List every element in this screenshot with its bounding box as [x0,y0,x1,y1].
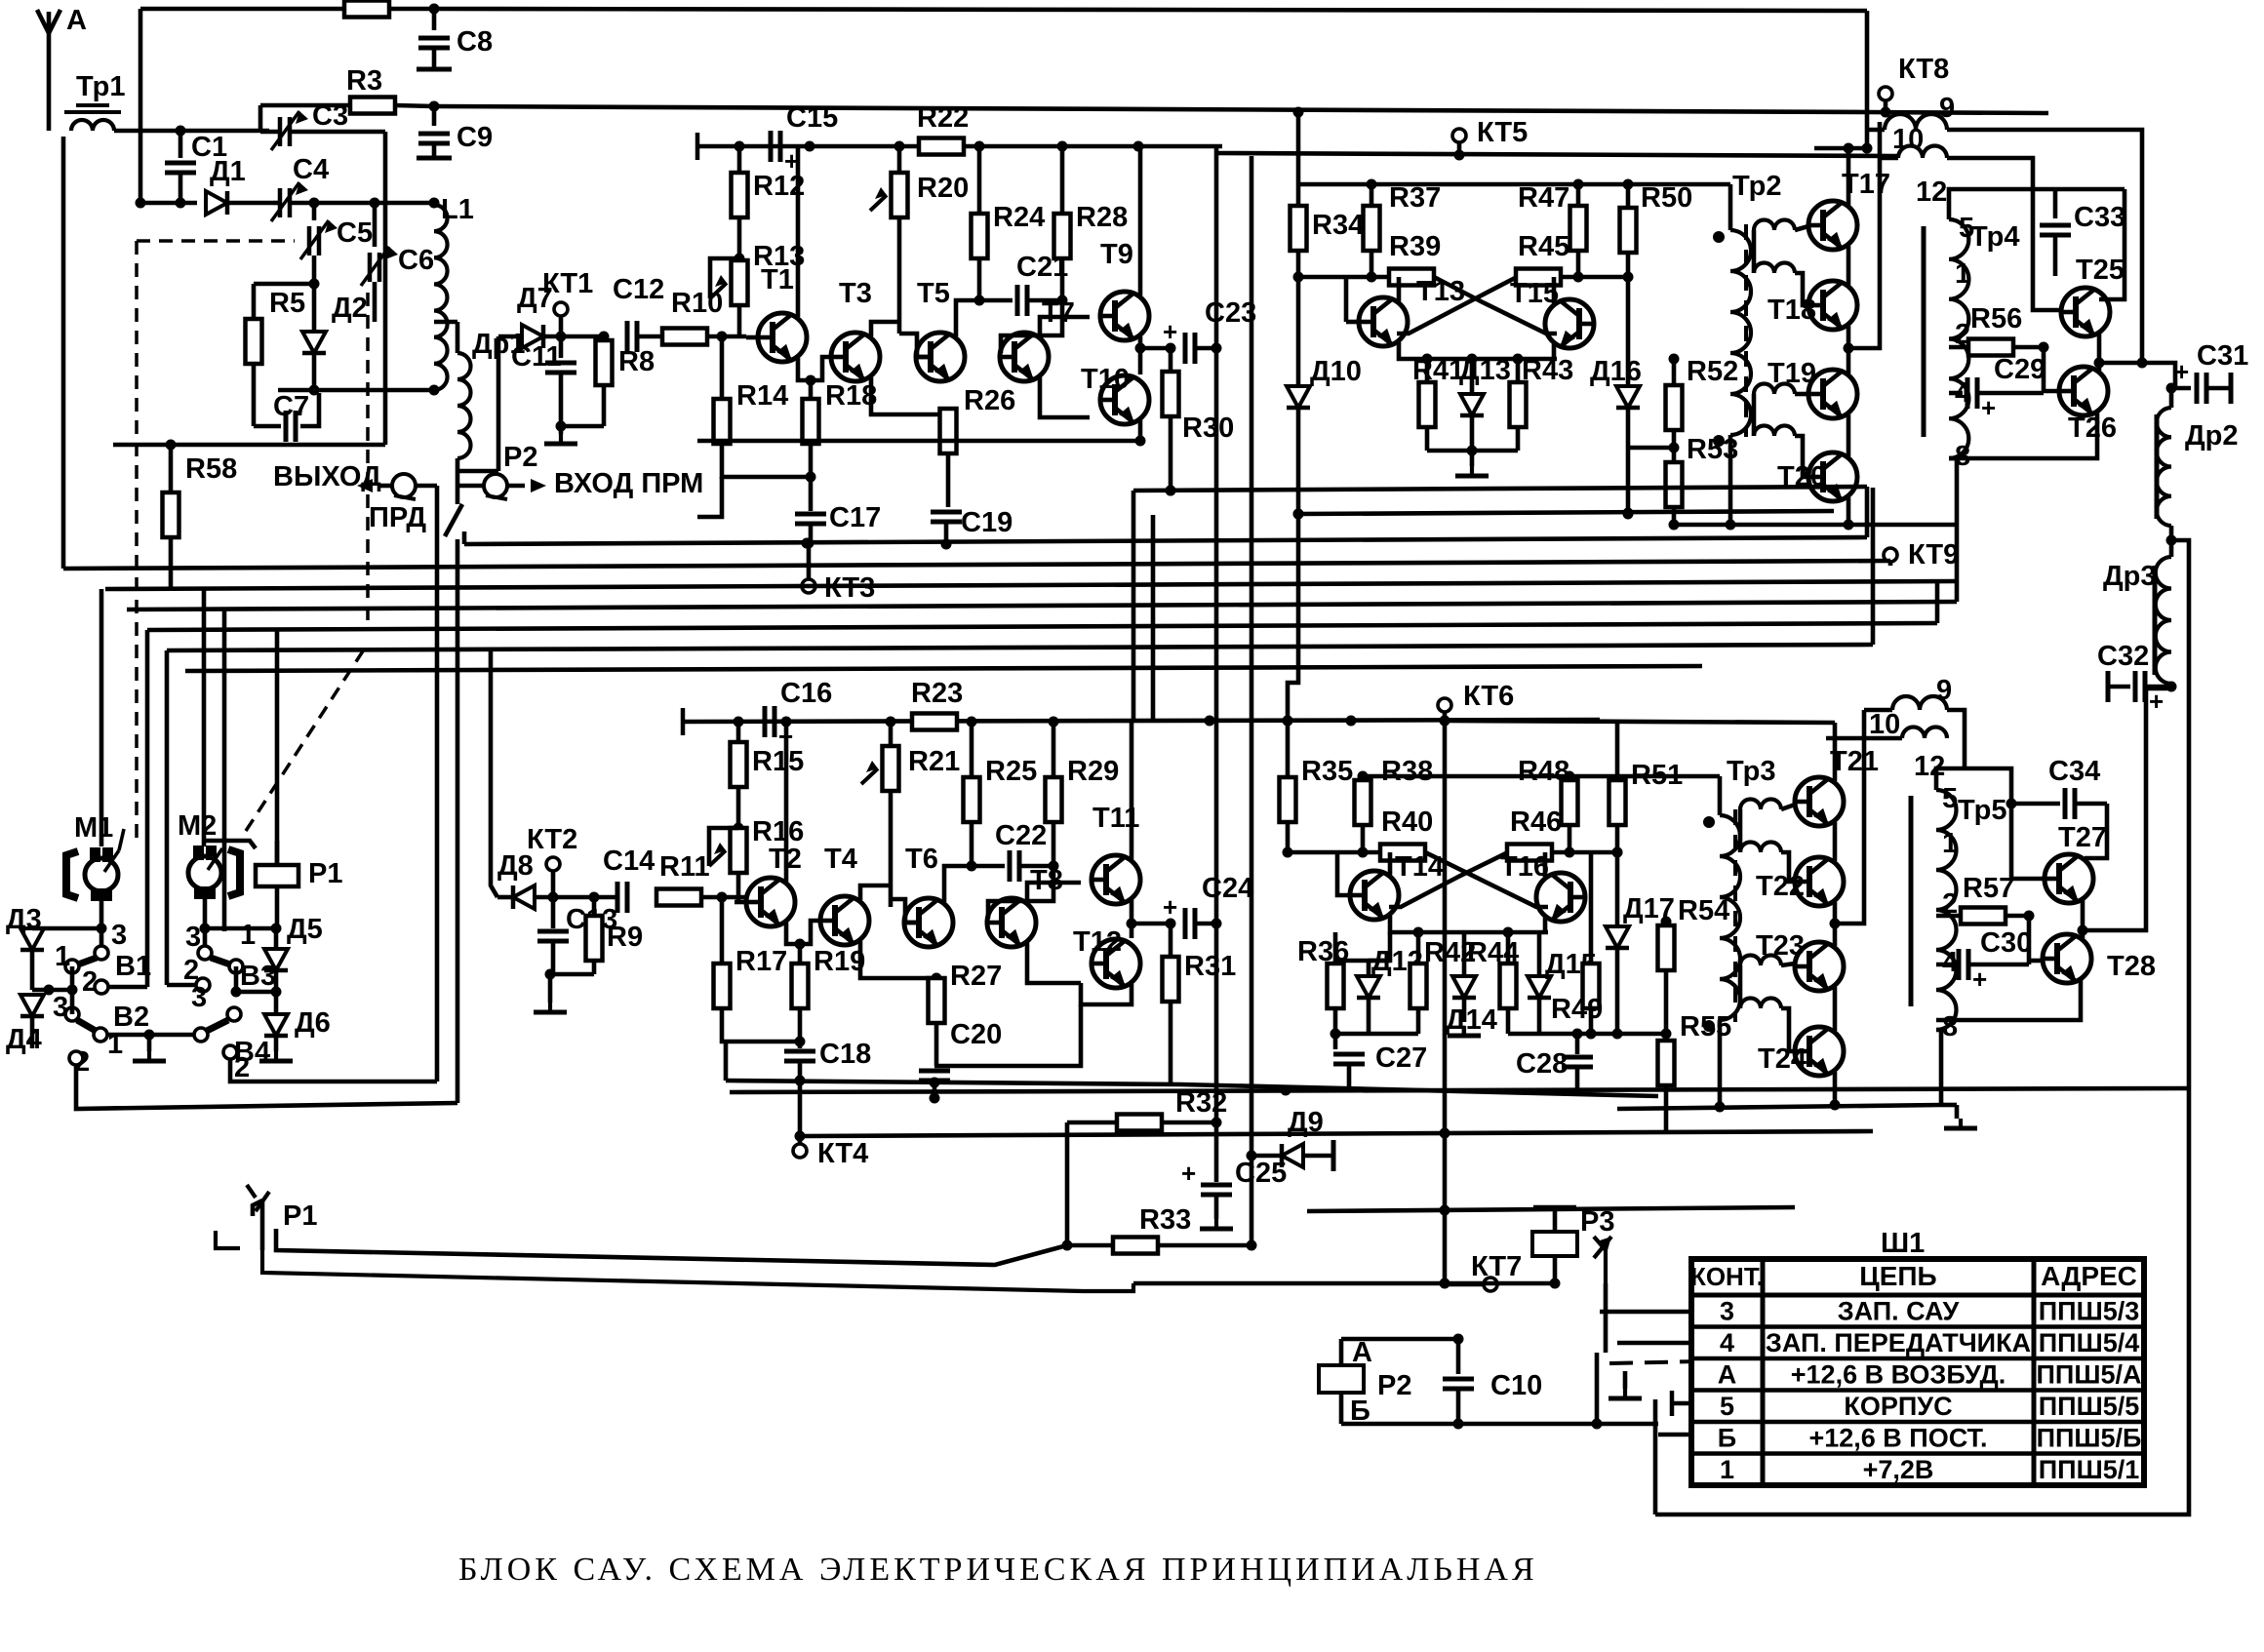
svg-text:В1: В1 [115,951,151,982]
transistor T16 [1500,851,1586,922]
riser [462,531,467,544]
svg-text:C9: C9 [457,122,493,153]
wire [139,9,143,203]
diode D15 [1528,932,1597,1034]
svg-text:Т16: Т16 [1500,851,1549,883]
svg-text:R22: R22 [917,102,969,134]
svg-text:Ш1: Ш1 [1881,1228,1925,1259]
svg-text:ППШ5/1: ППШ5/1 [2039,1455,2139,1484]
wire T23-T24 [1833,987,1838,1031]
resistor R25 [964,722,1038,872]
transistor T26 [2058,367,2117,444]
terminal KT4 [793,1136,868,1169]
wire [32,926,101,931]
svg-text:Р2: Р2 [503,442,537,473]
riser [1132,491,1136,723]
wire T3 collector [871,322,899,336]
svg-text:В2: В2 [113,1002,149,1033]
connector table Sh1 [1691,1259,2144,1485]
ground [274,1051,278,1061]
svg-text:A: A [66,5,87,36]
Tr4 coil 10 [1880,124,1947,158]
ffl ground rail [1427,446,1518,456]
svg-text:C4: C4 [293,154,329,185]
svg-text:+: + [2149,687,2164,716]
svg-text:Т14: Т14 [1395,851,1444,883]
svg-text:C15: C15 [786,102,838,134]
wire T2 collector [784,722,789,882]
wire [114,129,269,134]
capacitor C13 [537,897,617,974]
relay P3 [1532,1206,1614,1289]
svg-text:R5: R5 [269,288,305,319]
svg-text:R30: R30 [1182,413,1234,444]
resistor R27 [929,961,1003,1066]
ground [1944,1105,1977,1128]
node [806,375,816,386]
wire T19-T20 [1847,414,1851,456]
capacitor C30 [1936,927,2032,994]
terminal KT3 [802,538,875,605]
svg-text:+: + [1163,317,1177,346]
resistor R22 [894,102,1144,155]
table ground row5 [1672,1391,1691,1416]
svg-text:3: 3 [111,920,127,951]
transistor T28 [2042,934,2156,983]
wire [113,443,385,448]
svg-text:Т7: Т7 [1042,297,1075,329]
capacitor C7 [254,391,319,442]
svg-text:Т19: Т19 [1768,358,1816,389]
emitter rail [1399,342,1557,365]
transistor T8 [986,865,1063,947]
svg-text:R21: R21 [908,746,960,777]
Tr4 core [1922,226,1926,437]
svg-text:Т26: Т26 [2068,413,2117,444]
transistor T9 [1099,239,1149,340]
svg-text:R39: R39 [1389,231,1441,262]
svg-text:C29: C29 [1994,354,2046,385]
Tr3 core [1733,809,1737,1022]
resistor R18 [803,380,878,483]
resistor R41 [1412,355,1464,451]
svg-text:C8: C8 [457,26,493,58]
diode D16 [1590,277,1642,520]
diode D3 [6,904,44,990]
svg-text:R47: R47 [1518,182,1569,214]
svg-text:R23: R23 [911,678,963,709]
svg-text:Т1: Т1 [761,264,794,295]
svg-text:C25: C25 [1235,1158,1287,1189]
riser left c [165,650,170,985]
transistor T11 [1091,803,1140,904]
svg-text:А: А [1352,1337,1372,1368]
wire T27 base [1936,768,2044,879]
transistor T22 [1756,857,1844,906]
node [429,4,440,15]
resistor R54 [1658,895,1730,1040]
wire [1445,721,1835,723]
svg-text:R51: R51 [1631,760,1683,791]
svg-text:Т12: Т12 [1073,926,1122,958]
diode D6 [264,992,331,1051]
capacitor C9 [417,106,493,158]
dashed mech link [135,241,139,846]
riser [1440,716,1450,1284]
svg-text:1: 1 [1720,1455,1734,1484]
wire T4 collector [860,885,891,900]
svg-text:Р3: Р3 [1580,1206,1614,1238]
wire [258,105,263,132]
svg-text:1: 1 [1942,828,1958,859]
wire [796,146,801,317]
wire [230,511,437,1082]
cross coupling [1389,852,1548,907]
long wire [262,1250,1133,1291]
resistor R55 [1658,1011,1732,1131]
wire T26 emitter [1949,412,2097,458]
svg-text:Д2: Д2 [332,293,368,324]
svg-text:R3: R3 [346,65,382,97]
riser left f [275,630,280,865]
wire [1835,710,1864,924]
upper ground rail [697,439,1140,444]
svg-text:А: А [1718,1359,1737,1389]
wire [2085,804,2107,858]
svg-text:Т6: Т6 [905,844,938,875]
rail [1307,1205,1795,1216]
svg-text:R26: R26 [964,385,1015,416]
wire T13 base [1346,320,1359,325]
ground [544,426,577,444]
capacitor C14 [603,846,655,913]
svg-text:КТ6: КТ6 [1463,681,1514,712]
svg-text:+7,2В: +7,2В [1863,1455,1934,1484]
capacitor C1 [165,126,227,209]
dashed mech link [246,644,368,831]
wire [61,137,66,569]
svg-text:R50: R50 [1641,182,1692,214]
svg-text:5: 5 [1942,783,1958,814]
Tr5 coil 10 [1826,709,1947,740]
relay contact P1 [216,1185,317,1250]
svg-text:КОНТ.: КОНТ. [1690,1262,1764,1291]
svg-text:3: 3 [191,982,207,1013]
wire [383,132,388,203]
choke Dr2 [2157,388,2239,526]
KT5 line [1215,153,1897,156]
wire [1288,850,1363,855]
wire [1335,1032,1418,1037]
resistor R30 [1163,348,1235,496]
wire [697,477,722,517]
resistor R45 [1516,231,1628,286]
svg-text:Др2: Др2 [2185,420,2239,452]
capacitor C23 [1140,297,1256,364]
Tr2 sec B [1754,384,1808,477]
wire [934,1004,1081,1066]
wire [76,539,457,1109]
resistor R29 [1046,722,1120,866]
svg-text:R20: R20 [917,173,969,204]
svg-text:Д10: Д10 [1310,356,1362,387]
dashed mech link [137,239,295,243]
svg-text:+: + [2174,357,2189,386]
wire T7 collector [1040,317,1090,336]
svg-text:C3: C3 [312,100,348,132]
svg-text:R48: R48 [1518,756,1569,787]
table stub row3 [1600,1310,1691,1315]
svg-text:Д13: Д13 [1459,355,1511,386]
transistor T7 [999,297,1075,381]
resistor R39 [1371,231,1441,286]
svg-text:+: + [1981,393,1996,422]
svg-text:C7: C7 [273,391,309,422]
wire [205,926,276,931]
resistor R48 [1518,756,1578,858]
Tr3 primary [1720,776,1740,1107]
wire T10 emitter [1138,420,1143,441]
terminal KT9 [1884,539,1959,570]
wire T21 collector [1833,723,1838,781]
resistor R58 [163,445,238,589]
Tr2 dot [1713,231,1725,243]
wire [1955,525,1960,602]
resistor R32 [1067,1087,1227,1131]
svg-text:R56: R56 [1970,303,2022,334]
resistor R5 [246,284,315,426]
svg-text:ВХОД ПРМ: ВХОД ПРМ [554,468,703,499]
capacitor C11 [511,336,576,432]
M2 bracket [228,849,240,896]
svg-text:R41: R41 [1412,355,1464,386]
svg-text:Т27: Т27 [2058,822,2107,853]
svg-text:C10: C10 [1490,1370,1542,1401]
Tr3 dot [1703,816,1715,828]
switch B4 [191,982,270,1083]
node [932,973,942,984]
svg-text:Т23: Т23 [1756,930,1805,962]
wire [1848,122,1880,348]
svg-text:C31: C31 [2197,340,2248,372]
node [1135,343,1146,354]
capacitor C3 [260,100,385,150]
wire T18-T19 [1844,326,1854,374]
svg-text:R52: R52 [1687,356,1738,387]
terminal KT1 [542,268,593,342]
svg-text:8: 8 [1942,1011,1958,1042]
svg-text:Т25: Т25 [2076,255,2125,286]
wire T7 emitter [1040,377,1090,417]
wire [231,966,282,998]
relay P2 coil [1319,1337,1411,1427]
KT4 rail [795,1128,1874,1142]
svg-text:10: 10 [1869,709,1900,740]
resistor R11 [656,851,746,906]
Tr5 core [1909,796,1914,1006]
wire [798,357,832,380]
svg-text:ППШ5/3: ППШ5/3 [2039,1296,2139,1325]
wire [32,966,78,1014]
svg-text:Д9: Д9 [1288,1107,1324,1138]
node [589,892,600,903]
C16 rail [683,708,1600,735]
wire [1949,189,2125,219]
diode D8 [497,850,617,909]
svg-text:1: 1 [240,920,256,951]
dashed mech link [366,293,370,624]
svg-text:C12: C12 [613,274,664,305]
svg-text:C32: C32 [2097,641,2149,672]
vertical riser [1250,156,1254,1245]
transistor T12 [1073,926,1140,988]
svg-text:3: 3 [185,922,201,953]
resistor R28 [1054,146,1129,300]
svg-text:C33: C33 [2074,202,2125,233]
capacitor C8 [417,9,493,69]
diode D4 [6,995,44,1055]
transistor T15 [1510,278,1595,348]
node [1062,1240,1073,1251]
svg-text:Т28: Т28 [2107,951,2156,982]
capacitor C32 [2097,641,2177,716]
riser [1288,514,1298,721]
resistor R51 [1609,721,1684,858]
wire [1628,446,1674,451]
transistor T10 [1081,364,1149,424]
motor M2 [178,810,222,928]
terminal KT7 [1445,1251,1522,1291]
svg-text:1: 1 [55,941,70,972]
svg-text:Т10: Т10 [1081,364,1130,395]
svg-text:1: 1 [1955,258,1970,290]
svg-text:В3: В3 [240,961,276,992]
wire T9 collector [1138,146,1143,295]
svg-text:Р2: Р2 [1377,1370,1411,1401]
svg-text:R35: R35 [1301,756,1353,787]
capacitor C4 [271,154,434,221]
lower ground rail [726,1076,1658,1097]
svg-text:ППШ5/А: ППШ5/А [2037,1359,2142,1389]
capacitor C24 [1132,873,1253,939]
svg-text:Т13: Т13 [1416,276,1465,307]
wire T13 collector [1397,277,1402,301]
table bottom wire [1653,1399,1658,1514]
svg-text:C16: C16 [780,678,832,709]
wire [1341,1422,1658,1427]
antenna A [37,5,87,131]
Tr5 pin8 wire [1936,1030,1941,1105]
svg-text:Тр4: Тр4 [1970,221,2019,253]
M1 bracket [66,851,78,898]
svg-text:Р1: Р1 [308,858,342,889]
capacitor C18 [784,1039,871,1082]
diode D17 [1606,847,1675,1040]
node [1453,1334,1464,1345]
wire [457,336,498,471]
node [1293,107,1304,118]
transistor T19 [1768,358,1857,418]
svg-text:Д4: Д4 [6,1024,42,1055]
transistor T25 [2060,255,2125,336]
bus S1 [1133,486,1867,496]
vertical riser [1214,146,1219,1122]
wire [1335,932,1390,961]
svg-text:C24: C24 [1202,873,1253,904]
diode D10 [1287,277,1362,520]
svg-text:ЗАП. ПЕРЕДАТЧИКА: ЗАП. ПЕРЕДАТЧИКА [1766,1328,2031,1357]
flipflop top rail [1298,182,1730,187]
wire T26 out [2099,363,2175,388]
wire [278,388,434,393]
node [2166,535,2177,546]
wire T8 emitter [1027,943,1081,983]
bus L4 [127,602,1957,610]
resistor R34 [1291,184,1365,283]
resistor R38 [1355,756,1434,858]
riser left a [99,589,104,846]
Tr2 core [1744,224,1748,437]
svg-text:R19: R19 [814,946,865,977]
R3 bus [434,106,2048,113]
wire T17 collector [1847,148,1851,205]
wire T2 emitter [786,921,820,944]
wire T11-T12 [1127,900,1137,938]
node [1453,1419,1464,1430]
Tr3 bottom rail [1617,1102,1941,1113]
resistor R10 [662,288,746,345]
ground [133,1035,166,1061]
svg-text:ЦЕПЬ: ЦЕПЬ [1859,1261,1936,1291]
wire T27-T28 [2078,899,2088,938]
wire T11 collector [1130,722,1134,859]
transistor T24 [1758,1027,1844,1076]
capacitor C22 [972,820,1059,882]
wire [1298,275,1371,280]
wire T16 collector [1543,852,1548,877]
svg-text:C6: C6 [398,245,434,276]
resistor R17 [714,897,801,1042]
transformer Tr1 [64,71,125,131]
node [795,939,806,950]
wire T27 out [2083,688,2167,930]
riser left d [202,589,207,846]
wire T13 base col [1344,277,1349,322]
node [429,101,440,112]
choke Dr1 [434,322,526,458]
capacitor C34 [2006,756,2108,819]
transistor T5 [899,278,965,381]
capacitor C20 [919,1019,1002,1104]
bus L7 [185,666,1702,671]
svg-text:R43: R43 [1522,355,1573,386]
svg-text:R29: R29 [1067,756,1119,787]
capacitor C16 [734,678,833,751]
wire T3 emitter [871,377,948,414]
bus S2 [1293,508,1835,520]
wire [1935,581,1940,623]
diode D13 [1459,355,1511,466]
T17 bus [1814,143,1873,154]
resistor R40 [1363,806,1433,861]
resistor R49 [1551,852,1603,1040]
wire [1947,710,1965,768]
svg-text:Б: Б [1718,1423,1736,1452]
Tr4 coil 9 [1867,93,1955,130]
wire [2044,347,2060,393]
resistor R43 [1510,355,1574,451]
resistor R12 [732,146,806,264]
